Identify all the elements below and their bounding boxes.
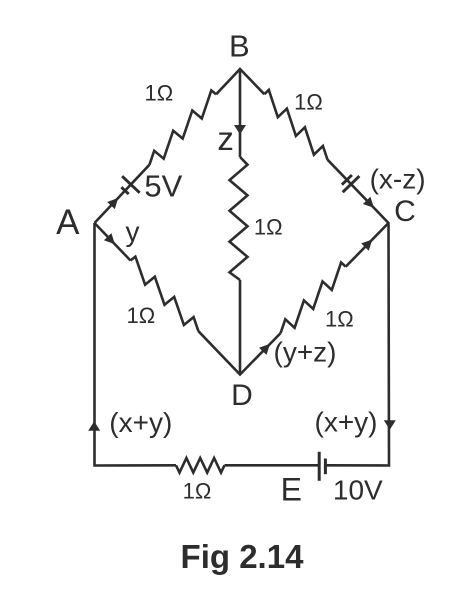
svg-text:(y+z): (y+z) xyxy=(274,337,337,368)
arrow current (x-z) toward node C xyxy=(363,197,374,208)
wire from node A down left side through bottom-left corner to bottom resistor R6 xyxy=(95,223,177,466)
arrow current (x+y) downward on right wire xyxy=(384,420,396,430)
battery B1 5V positive (long) plate xyxy=(122,176,140,193)
svg-text:A: A xyxy=(56,203,80,242)
svg-text:(x+y): (x+y) xyxy=(315,407,378,438)
wire from node A up-right to 5V battery and resistor R1 xyxy=(95,165,150,223)
resistor R1 1ohm on arm A-B xyxy=(149,90,216,164)
resistor R6 1ohm on bottom wire xyxy=(176,458,225,473)
wire from battery B2 through node C down right side to bottom-right corner and 10V battery xyxy=(325,160,389,466)
arrow current (x+y) upward on left wire xyxy=(88,421,100,431)
battery B1 5V negative (short) plate xyxy=(121,187,128,194)
wire from resistor R4 up to node C xyxy=(346,223,389,267)
svg-text:1Ω: 1Ω xyxy=(254,215,283,240)
svg-text:y: y xyxy=(126,216,140,247)
wire from resistor R6 to 10V battery at node E xyxy=(225,464,320,467)
arrow current y from A toward D xyxy=(104,233,115,244)
wire through node B joining arm A-B and arm B-C xyxy=(216,69,264,94)
resistor R2 1ohm on arm B-C xyxy=(264,90,327,160)
svg-text:1Ω: 1Ω xyxy=(145,81,174,106)
arrow current z downward on branch B-D xyxy=(234,125,246,135)
battery B2 short plate on arm B-C xyxy=(342,175,352,185)
svg-text:Fig 2.14: Fig 2.14 xyxy=(181,538,305,575)
svg-text:10V: 10V xyxy=(333,474,383,505)
arrow current (y+z) from D toward C xyxy=(259,344,270,355)
svg-text:E: E xyxy=(281,472,302,508)
svg-text:C: C xyxy=(394,195,416,228)
arrow current x toward node C on arm D-C xyxy=(361,240,372,251)
wire from node B down to resistor R5 xyxy=(239,69,242,157)
wire through node D joining arm A-D and arm D-C xyxy=(198,331,280,374)
svg-text:1Ω: 1Ω xyxy=(325,307,354,332)
battery B3 10V positive (long) plate xyxy=(318,452,321,481)
svg-text:5V: 5V xyxy=(144,169,182,204)
svg-text:z: z xyxy=(217,120,234,157)
battery B2 long plate on arm B-C xyxy=(343,176,360,192)
svg-text:1Ω: 1Ω xyxy=(183,479,212,504)
svg-text:(x-z): (x-z) xyxy=(370,164,426,195)
resistor R3 1ohm on arm A-D xyxy=(131,257,199,332)
resistor R5 1ohm on middle branch B-D xyxy=(230,157,248,280)
battery B3 10V negative (short) plate xyxy=(324,459,327,475)
arrow current x from A toward B xyxy=(107,198,118,209)
svg-text:1Ω: 1Ω xyxy=(294,89,323,114)
svg-text:D: D xyxy=(231,379,253,412)
svg-text:B: B xyxy=(229,29,250,64)
svg-text:(x+y): (x+y) xyxy=(109,407,172,438)
wire from resistor R5 down to node D xyxy=(239,280,242,375)
wire from node A down-right to resistor R3 xyxy=(95,223,131,261)
resistor R4 1ohm on arm D-C xyxy=(281,262,346,333)
svg-text:1Ω: 1Ω xyxy=(126,303,155,328)
